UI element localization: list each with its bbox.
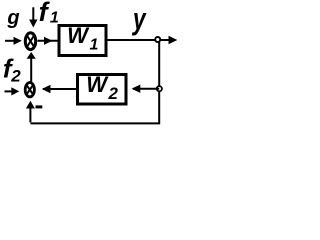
block W2 xyxy=(78,72,127,104)
label f2 xyxy=(3,54,21,86)
wire f2 input xyxy=(5,87,20,95)
minus sign at S2 xyxy=(36,105,43,108)
wire f1 input xyxy=(29,7,37,27)
wire bottom feedback into S2 xyxy=(26,101,35,123)
svg-text:W: W xyxy=(86,72,109,97)
wire node to W2 xyxy=(132,85,160,93)
wire S1 to W1 xyxy=(38,37,58,45)
wire S2 to S1 xyxy=(27,52,36,82)
summing junction S1 xyxy=(25,33,35,50)
block W1 xyxy=(59,23,106,56)
node y branch xyxy=(155,37,160,42)
svg-text:W: W xyxy=(67,23,90,48)
svg-text:1: 1 xyxy=(90,36,99,53)
svg-text:2: 2 xyxy=(10,67,21,86)
wire g input xyxy=(5,37,22,45)
svg-text:g: g xyxy=(6,7,19,29)
wire feedback vertical and bottom xyxy=(30,42,159,123)
wire W2 to S2 xyxy=(42,85,77,93)
node W2 branch xyxy=(157,86,162,91)
summing junction S2 xyxy=(25,83,34,97)
svg-text:2: 2 xyxy=(108,84,119,103)
label f1 xyxy=(39,0,59,27)
svg-text:y: y xyxy=(131,2,147,36)
wire W1 output y xyxy=(108,36,178,44)
